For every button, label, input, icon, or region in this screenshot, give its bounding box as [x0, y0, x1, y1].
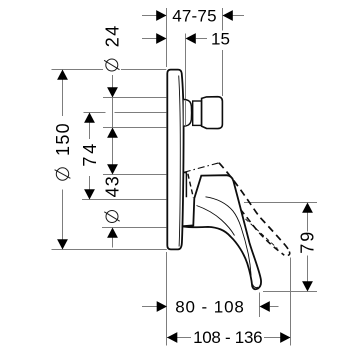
- svg-text:15: 15: [211, 30, 230, 49]
- svg-text:43: 43: [103, 175, 123, 197]
- svg-text:74: 74: [80, 141, 100, 167]
- svg-text:24: 24: [103, 24, 123, 47]
- svg-text:79: 79: [298, 230, 318, 254]
- svg-text:108 - 136: 108 - 136: [193, 328, 262, 347]
- svg-text:47-75: 47-75: [172, 7, 216, 26]
- svg-text:150: 150: [53, 122, 73, 156]
- svg-text:80 - 108: 80 - 108: [175, 298, 245, 317]
